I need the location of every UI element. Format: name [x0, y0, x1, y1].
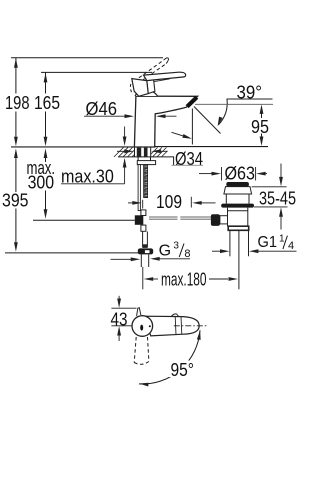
- arrow Ø63 left: [256, 172, 266, 176]
- svg-text:35-45: 35-45: [259, 188, 296, 208]
- pull rod: [138, 165, 140, 211]
- arrow max300 up at deck: [44, 149, 48, 159]
- bottom reference line: [5, 252, 140, 254]
- svg-text:198: 198: [5, 93, 30, 113]
- deck hatching left: [114, 147, 134, 157]
- drain side knob: [220, 216, 228, 224]
- arrow 95 up: [260, 104, 264, 114]
- arrow G114 right: [220, 249, 230, 253]
- svg-text:Ø63: Ø63: [225, 163, 256, 183]
- arrow G114 left: [249, 249, 259, 253]
- handle raised dashed: [139, 60, 166, 80]
- lever inner lines: [175, 317, 182, 335]
- threaded stud: [144, 165, 148, 198]
- supply tube below cross: [143, 232, 148, 248]
- pivot dark dot: [140, 325, 143, 331]
- drain plug skirt: [224, 187, 252, 194]
- arrow 109 right: [132, 201, 142, 205]
- svg-text:4: 4: [288, 240, 294, 252]
- handle raised butt dashed: [130, 79, 133, 94]
- deck hatching right: [151, 147, 168, 157]
- arrow G38 right: [131, 257, 141, 261]
- arrow arc95 bottom: [139, 382, 149, 387]
- leader arrow to aerator axis: [172, 132, 184, 136]
- water stream line 39deg: [194, 107, 221, 134]
- arrow Ø46 right at body left edge: [125, 114, 135, 118]
- stud dark in hole: [144, 148, 148, 158]
- arrow 165 up at top line: [44, 73, 48, 83]
- svg-text:300: 300: [28, 173, 54, 193]
- rod joint gap: [178, 216, 181, 220]
- dimension Ø63: [199, 167, 267, 181]
- arrow Ø34 right at hole left: [117, 150, 126, 152]
- blade underside second line: [154, 79, 170, 82]
- drain bottom coupling: [228, 226, 249, 230]
- dimension line max300: [45, 157, 47, 211]
- fitting thread stub: [141, 254, 148, 267]
- svg-text:395: 395: [2, 191, 29, 211]
- shank below deck: [138, 157, 150, 161]
- dimension 109: [128, 197, 216, 209]
- pop-up rod horizontal: [149, 217, 215, 219]
- handle raised tip: [164, 58, 169, 64]
- arrow max30 down at deck top: [123, 137, 127, 147]
- drain body: [228, 208, 248, 227]
- svg-text:95: 95: [251, 117, 269, 137]
- arrow 3545 down: [279, 177, 283, 187]
- drain flange: [221, 204, 254, 208]
- deck top line left: [11, 146, 134, 148]
- arrow 198 down at deck: [14, 137, 18, 147]
- dimension line 198 top: [11, 58, 163, 138]
- drain plug top: [226, 182, 249, 187]
- svg-text:Ø34: Ø34: [175, 149, 203, 169]
- arrow 395 up at deck: [14, 149, 18, 159]
- mounting nut: [137, 161, 155, 165]
- dimension line 395 below deck: [15, 157, 17, 244]
- 95 top reference line: [195, 103, 273, 105]
- arrow 198 up at top line: [14, 58, 18, 67]
- dimension max.180: [143, 267, 228, 290]
- arrow arc95 top: [197, 330, 202, 340]
- hose end fitting nut: [138, 248, 153, 254]
- svg-text:95°: 95°: [171, 360, 195, 380]
- arrow max30 up at deck bottom: [123, 158, 127, 168]
- arrow max180 left: [144, 277, 154, 281]
- top view pivot circle: [132, 316, 153, 337]
- top view tab: [137, 308, 141, 316]
- dimension line 165: [41, 72, 152, 137]
- dimension 35-45: [252, 164, 288, 230]
- lever neck: [147, 80, 155, 94]
- arrow Ø46 left at body right edge: [158, 115, 177, 117]
- deck top line right: [155, 146, 268, 148]
- aerator dark end face: [187, 97, 197, 106]
- top view lever body: [144, 316, 199, 336]
- cross fitting: [141, 210, 146, 216]
- arrow 43 up: [117, 326, 121, 336]
- small dot: [149, 325, 151, 327]
- supply line horizontal: [33, 219, 135, 221]
- arrow 3545 up: [279, 207, 283, 217]
- rod sleeve dark in hole: [137, 148, 141, 158]
- arrow Ø63 right: [212, 172, 222, 176]
- arrow 43 down: [117, 299, 121, 309]
- dimension 43: [111, 296, 136, 341]
- arrow 95 down: [260, 137, 264, 147]
- dashed handle swung: [134, 337, 149, 364]
- arc 39deg: [218, 99, 227, 125]
- svg-text:G1: G1: [258, 234, 278, 251]
- drain waist: [226, 194, 249, 204]
- arrow max180 right: [229, 277, 239, 281]
- svg-text:109: 109: [156, 192, 182, 212]
- arrow max300 down at supply line: [44, 209, 48, 219]
- svg-text:1: 1: [279, 233, 285, 244]
- arrow arc 39: [216, 117, 223, 127]
- svg-text:3: 3: [173, 240, 179, 251]
- lever blade: [144, 72, 186, 80]
- svg-text:G: G: [159, 242, 171, 259]
- centerline dash-dot: [174, 325, 207, 327]
- lever top nub: [171, 314, 179, 317]
- arrow 109 left: [192, 201, 202, 205]
- faucet body and spout outline: [134, 96, 197, 147]
- supply pipe thread section: [143, 244, 147, 248]
- svg-text:43: 43: [111, 309, 128, 329]
- aerator axis extension line: [191, 109, 193, 145]
- lever front grip: [132, 79, 148, 97]
- cartridge dome: [135, 90, 157, 96]
- arrow 395 down at bottom line: [14, 242, 18, 252]
- tailpipe: [230, 230, 249, 289]
- svg-text:165: 165: [34, 93, 60, 113]
- svg-text:8: 8: [184, 248, 190, 260]
- arc 95deg: [139, 330, 200, 384]
- dimension G3/8: [111, 258, 191, 261]
- arrow Ø34 left at hole right: [159, 150, 168, 152]
- arrow G38 left: [150, 257, 160, 261]
- dimension G1 1/4: [212, 250, 297, 252]
- svg-text:max.180: max.180: [161, 270, 207, 290]
- dimension 95: [261, 113, 263, 139]
- deck bottom line: [118, 157, 174, 165]
- label 95° background: [168, 361, 194, 378]
- arrow 165 down at deck: [44, 137, 48, 147]
- mounting hole edges: [135, 147, 151, 157]
